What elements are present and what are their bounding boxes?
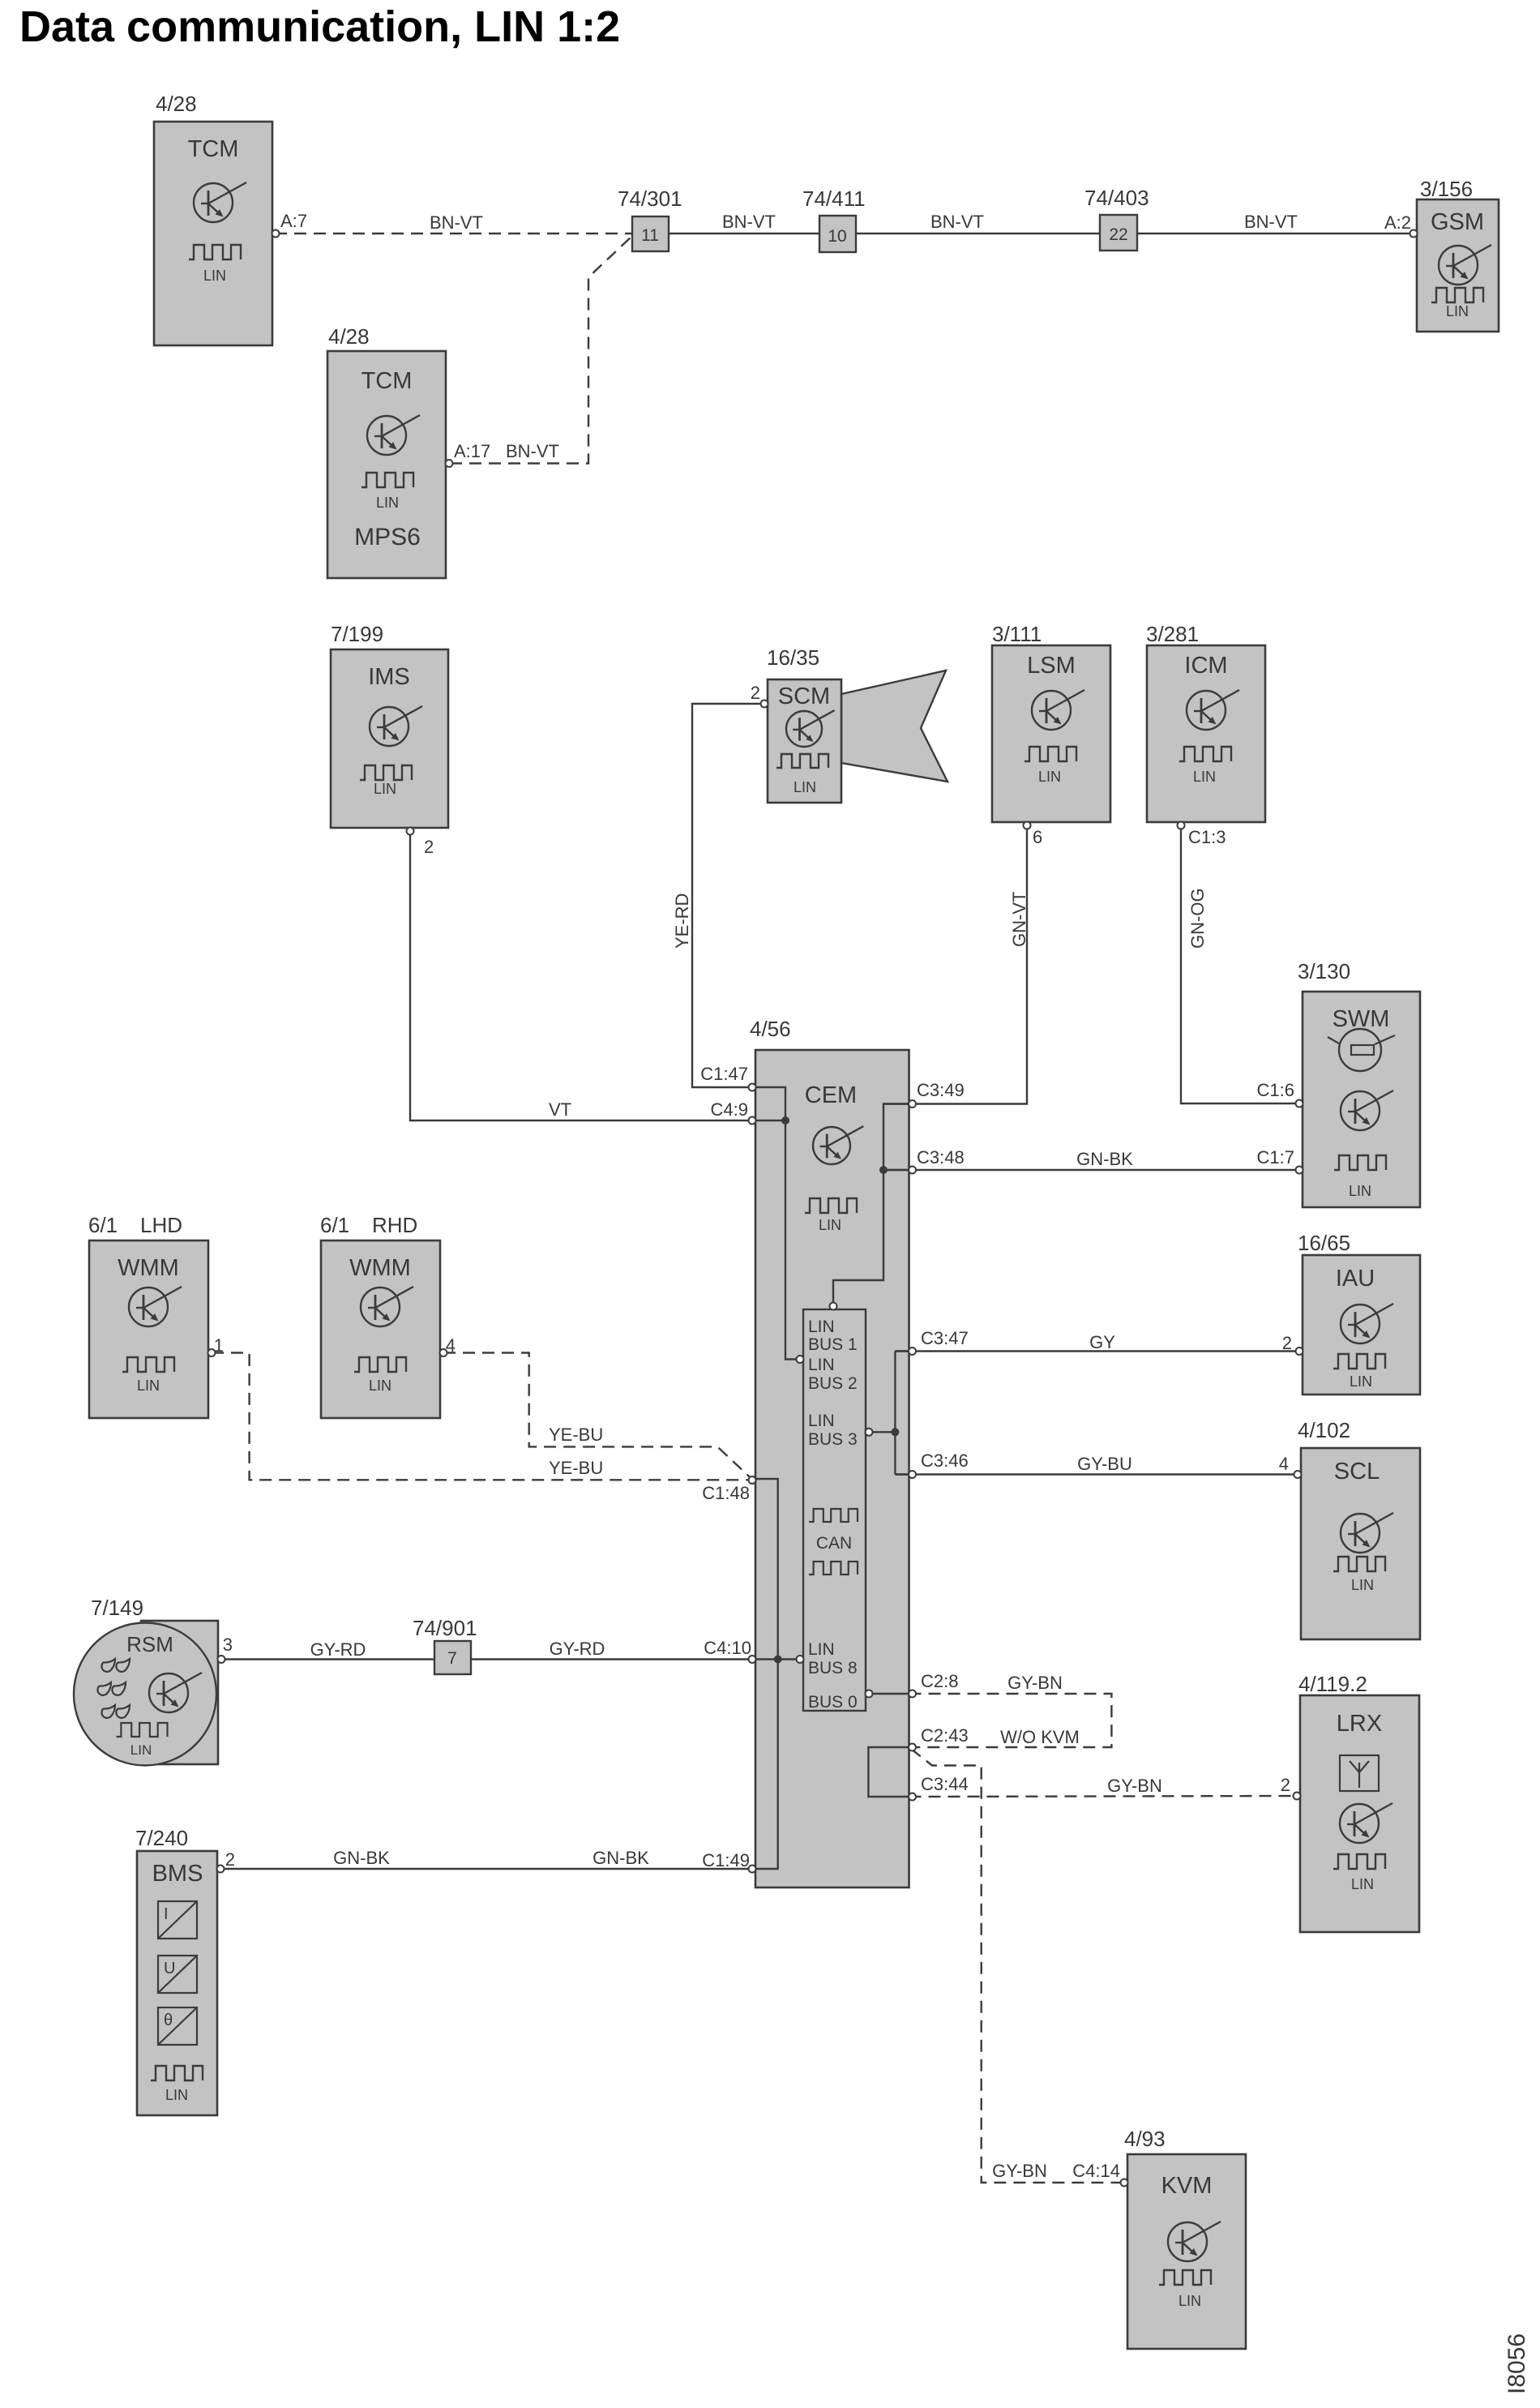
wire GN-BK BMS 2 to CEM C1:49 [220, 1868, 755, 1870]
connector 74/301 pin 11 [632, 216, 669, 251]
label W/O KVM [1000, 1727, 1080, 1747]
SCL contents [1333, 1459, 1393, 1593]
pin C1:47 on CEM [749, 1084, 756, 1091]
pin C3:46 on CEM [909, 1471, 916, 1478]
label VT [549, 1099, 571, 1120]
pin C3:47 on CEM [909, 1348, 916, 1355]
svg-text:C3:46: C3:46 [921, 1450, 969, 1471]
svg-text:1: 1 [214, 1335, 224, 1356]
ECU LSM 3/111 box [992, 645, 1110, 822]
svg-text:GN-BK: GN-BK [592, 1848, 649, 1868]
pin A:17 on TCM MPS6 [446, 460, 453, 467]
label GN-BK 3 [592, 1848, 649, 1868]
CEM internal loop C2:43 to C3:44 [868, 1747, 909, 1797]
ref 4/28 (TCM) [156, 92, 197, 116]
wire BN-VT dashed TCM A:17 branch [450, 236, 632, 464]
svg-text:LIN: LIN [130, 1742, 152, 1758]
pin LIN BUS 2 on inner block [797, 1356, 804, 1363]
svg-text:LIN: LIN [1350, 1373, 1372, 1390]
wire BN-VT 74/301 to 74/411 [669, 233, 819, 234]
ref 74/301 [618, 186, 682, 211]
svg-text:3/281: 3/281 [1146, 622, 1199, 646]
svg-text:BUS 3: BUS 3 [808, 1430, 858, 1449]
label C1:6 [1257, 1080, 1294, 1100]
wire GY-BN dashed CEM C2:8 W/O KVM loop to C2:43 [909, 1694, 1112, 1747]
svg-text:LSM: LSM [1027, 653, 1076, 679]
ref 74/411 [802, 186, 866, 211]
ECU CEM 4/56 box [755, 1050, 909, 1887]
WMM LHD contents [118, 1255, 182, 1394]
label C1:3 [1188, 827, 1226, 847]
svg-text:6/1: 6/1 [88, 1213, 118, 1237]
svg-text:TCM: TCM [361, 368, 413, 394]
wire BN-VT 74/403 to GSM A:2 [1137, 233, 1414, 234]
pin C2:43 on CEM [909, 1744, 916, 1751]
svg-text:2: 2 [424, 837, 434, 857]
svg-text:3/156: 3/156 [1420, 177, 1473, 201]
ref 74/403 [1084, 186, 1149, 210]
svg-text:16/35: 16/35 [767, 645, 819, 670]
label A:2 [1384, 212, 1411, 233]
svg-text:BUS 8: BUS 8 [808, 1659, 858, 1677]
ECU WMM LHD 6/1 box [89, 1240, 208, 1418]
label C1:48 [702, 1483, 750, 1503]
pin C1:7 on SWM [1296, 1167, 1303, 1174]
label C2:43 [921, 1725, 969, 1746]
WMM RHD contents [349, 1255, 413, 1394]
connector 74/901 pin 7 [434, 1641, 471, 1674]
label YE-BU upper [549, 1425, 603, 1445]
svg-text:2: 2 [1281, 1775, 1290, 1795]
pin 4 on SCL [1294, 1471, 1302, 1478]
wire YE-RD SCM 2 to CEM C1:47 [692, 704, 760, 1087]
label 1 WMM LHD [214, 1335, 224, 1356]
label GN-OG rotated [1187, 888, 1208, 949]
svg-text:C4:9: C4:9 [711, 1099, 748, 1120]
ref 7/199 [331, 622, 383, 646]
svg-text:BN-VT: BN-VT [430, 212, 483, 233]
IAU contents [1333, 1266, 1393, 1390]
svg-text:4/93: 4/93 [1124, 2127, 1166, 2151]
svg-text:4: 4 [446, 1335, 456, 1356]
pin 6 on LSM [1024, 822, 1031, 829]
pin C4:14 on KVM [1121, 2179, 1128, 2187]
label C4:9 [711, 1099, 748, 1120]
label BN-VT 2 [722, 212, 776, 232]
pin C1:6 on SWM [1296, 1100, 1303, 1108]
svg-text:LIN: LIN [808, 1356, 835, 1374]
label C3:44 [921, 1774, 969, 1794]
ref 7/240 [135, 1826, 188, 1850]
svg-text:BUS 2: BUS 2 [808, 1374, 858, 1393]
CEM inner LIN-bus block [803, 1309, 866, 1711]
svg-text:LIN: LIN [1351, 1876, 1374, 1892]
svg-text:C1:49: C1:49 [702, 1850, 750, 1870]
label C3:48 [917, 1147, 965, 1168]
svg-text:C1:47: C1:47 [700, 1064, 748, 1084]
svg-text:LIN: LIN [819, 1217, 841, 1233]
svg-text:GN-BK: GN-BK [333, 1848, 390, 1868]
label 2 IMS [424, 837, 434, 857]
svg-text:74/411: 74/411 [802, 186, 866, 211]
svg-text:C4:10: C4:10 [704, 1638, 751, 1658]
svg-text:A:17: A:17 [454, 441, 490, 461]
svg-text:YE-BU: YE-BU [549, 1425, 603, 1445]
svg-text:C1:48: C1:48 [702, 1483, 750, 1503]
svg-text:11: 11 [641, 226, 659, 245]
svg-text:16/65: 16/65 [1298, 1231, 1350, 1255]
svg-text:2: 2 [1282, 1333, 1292, 1353]
ref 16/65 [1298, 1231, 1350, 1255]
pin C3:49 on CEM [909, 1100, 916, 1108]
ECU SWM 3/130 box [1303, 992, 1420, 1207]
svg-text:LIN: LIN [1193, 769, 1216, 785]
pin C1:3 on ICM [1178, 822, 1185, 829]
pin C1:48 on CEM [749, 1476, 756, 1484]
svg-text:GY: GY [1089, 1332, 1115, 1352]
svg-text:BUS 0: BUS 0 [808, 1693, 858, 1712]
svg-text:LIN: LIN [808, 1318, 835, 1336]
wire GY CEM C3:47 to IAU 2 [895, 1350, 1298, 1352]
pin LIN BUS 8 on inner block [797, 1656, 804, 1663]
ECU IMS 7/199 box [331, 649, 448, 828]
label GY-BU [1077, 1454, 1132, 1474]
label C1:47 [700, 1064, 748, 1084]
label C3:49 [917, 1080, 965, 1100]
svg-text:VT: VT [549, 1099, 571, 1120]
wire BN-VT dashed TCM A:7 to 74/301 [275, 233, 632, 234]
svg-text:2: 2 [225, 1849, 235, 1870]
svg-text:RSM: RSM [126, 1632, 173, 1656]
label GY-RD 2 [550, 1639, 605, 1659]
label C1:7 [1257, 1147, 1294, 1168]
svg-text:KVM: KVM [1161, 2173, 1213, 2199]
pin C2:8 on CEM [909, 1690, 916, 1698]
ref 4/56 [750, 1017, 791, 1041]
wire GN-BK CEM C3:48 to SWM C1:7 [883, 1169, 1300, 1171]
svg-text:BN-VT: BN-VT [1244, 212, 1298, 232]
CEM inner block labels LIN BUS 1/2/3 CAN LIN BUS 8 BUS 0 [808, 1318, 858, 1712]
svg-text:WMM: WMM [118, 1255, 179, 1281]
svg-text:GSM: GSM [1431, 209, 1484, 235]
svg-text:BMS: BMS [152, 1861, 203, 1887]
connector 74/411 pin 10 [819, 216, 856, 252]
label BN-VT 5 [506, 441, 559, 461]
svg-text:GY-BN: GY-BN [1107, 1776, 1162, 1796]
label C4:10 [704, 1638, 751, 1658]
ref 3/111 [992, 622, 1042, 646]
svg-text:LIN: LIN [203, 268, 226, 284]
svg-text:4: 4 [1279, 1454, 1289, 1474]
svg-text:LIN: LIN [376, 495, 399, 511]
pin 2 on BMS [217, 1866, 225, 1873]
label GY-BN 3 [992, 2161, 1047, 2181]
svg-text:74/301: 74/301 [618, 186, 682, 211]
label YE-RD rotated [672, 893, 692, 949]
ECU RSM 7/149 body [74, 1621, 218, 1766]
wire VT IMS 2 to CEM C4:9 [410, 833, 755, 1120]
wire GY-RD RSM 3 to 74/901 to CEM C4:10 [219, 1658, 755, 1660]
svg-text:LIN: LIN [1038, 769, 1061, 785]
label GN-BK 2 [333, 1848, 390, 1868]
label A:7 [280, 211, 307, 231]
svg-text:LIN: LIN [808, 1640, 835, 1659]
BMS contents [151, 1861, 203, 2103]
pin C3:48 on CEM [909, 1167, 916, 1174]
ref 7/149 [91, 1596, 143, 1620]
svg-text:LIN: LIN [1179, 2293, 1201, 2309]
svg-text:C3:48: C3:48 [917, 1147, 965, 1168]
svg-text:U: U [164, 1960, 175, 1977]
ref 6/1 LHD [88, 1213, 182, 1237]
CEM internal wire C1:47/C4:9 to LIN BUS 2 [755, 1087, 797, 1360]
svg-text:IMS: IMS [368, 664, 410, 690]
svg-text:YE-BU: YE-BU [549, 1458, 603, 1478]
label 6 LSM [1033, 827, 1042, 847]
svg-text:6: 6 [1033, 827, 1042, 847]
ECU LRX 4/119.2 box [1300, 1695, 1419, 1932]
label 4 WMM RHD [446, 1335, 456, 1356]
svg-text:LHD: LHD [140, 1213, 182, 1237]
CEM internal wire LIN BUS 3 to C3:47/C3:46 [869, 1352, 909, 1475]
svg-text:BN-VT: BN-VT [506, 441, 559, 461]
ref 4/119.2 [1298, 1672, 1367, 1696]
svg-text:ICM: ICM [1184, 653, 1227, 679]
svg-text:LRX: LRX [1337, 1711, 1382, 1737]
pin A:7 on TCM [272, 230, 280, 238]
wire GY-BN dashed CEM C2:43 to KVM C4:14 [911, 1749, 1121, 2183]
svg-text:LIN: LIN [794, 779, 816, 795]
svg-text:BN-VT: BN-VT [722, 212, 776, 232]
svg-text:SCM: SCM [778, 683, 830, 709]
wire GY-BU CEM C3:46 to SCL 4 [895, 1473, 1298, 1475]
label 3 RSM [223, 1635, 233, 1655]
TCM MPS6 contents [354, 368, 421, 551]
ECU SCL 4/102 box [1301, 1448, 1420, 1639]
wire BN-VT 74/411 to 74/403 [856, 233, 1100, 234]
pin 2 on IAU [1296, 1348, 1303, 1355]
label C3:47 [921, 1328, 969, 1348]
label 2 IAU [1282, 1333, 1292, 1353]
svg-text:7: 7 [447, 1649, 457, 1668]
label GY-RD 1 [310, 1639, 366, 1660]
ref 3/156 [1420, 177, 1473, 201]
ref 6/1 RHD [320, 1213, 417, 1237]
ECU SCM 16/35 horn [841, 671, 948, 782]
svg-text:7/240: 7/240 [135, 1826, 188, 1850]
svg-text:CAN: CAN [816, 1534, 852, 1553]
svg-text:10: 10 [828, 227, 846, 246]
ref 3/130 [1298, 959, 1350, 983]
label YE-BU lower [549, 1458, 603, 1478]
svg-text:A:2: A:2 [1384, 212, 1411, 233]
GSM contents [1431, 209, 1491, 319]
KVM contents [1159, 2173, 1221, 2309]
svg-text:WMM: WMM [349, 1255, 411, 1281]
svg-text:GY-RD: GY-RD [550, 1639, 605, 1659]
label BN-VT 3 [930, 212, 984, 232]
svg-text:I: I [164, 1905, 169, 1923]
svg-text:7/199: 7/199 [331, 622, 383, 646]
pin C3:44 on CEM [909, 1793, 916, 1801]
label 2 LRX [1281, 1775, 1290, 1795]
pin 3 on RSM [218, 1656, 225, 1663]
label GY-BN 1 [1007, 1673, 1063, 1693]
label C4:14 [1072, 2161, 1120, 2181]
label 2 BMS [225, 1849, 235, 1870]
ref 4/93 [1124, 2127, 1166, 2151]
ECU WMM RHD 6/1 box [321, 1240, 440, 1418]
svg-text:I8056: I8056 [1504, 2333, 1530, 2394]
svg-text:4/28: 4/28 [156, 92, 197, 116]
ECU BMS 7/240 box [137, 1851, 217, 2115]
pin 4 on WMM RHD [440, 1349, 447, 1356]
svg-text:LIN: LIN [369, 1378, 391, 1394]
junction LIN BUS 3 [891, 1428, 899, 1436]
svg-text:2: 2 [751, 683, 760, 703]
svg-text:C4:14: C4:14 [1072, 2161, 1120, 2181]
svg-text:GY-BN: GY-BN [1007, 1673, 1063, 1693]
label GY-BN 2 [1107, 1776, 1162, 1796]
svg-text:22: 22 [1109, 225, 1127, 244]
svg-text:6/1: 6/1 [320, 1213, 349, 1237]
svg-text:MPS6: MPS6 [354, 524, 421, 551]
ECU SCM 16/35 box [768, 679, 841, 803]
IMS contents [360, 664, 422, 797]
LRX contents [1333, 1711, 1392, 1892]
ECU TCM MPS6 4/28 box [327, 351, 446, 578]
svg-text:7/149: 7/149 [91, 1596, 143, 1620]
pin C4:9 on CEM [749, 1117, 756, 1125]
svg-text:CEM: CEM [805, 1082, 857, 1108]
RSM contents [97, 1632, 202, 1758]
svg-text:θ: θ [164, 2012, 173, 2029]
pin 2 on IMS [407, 828, 414, 835]
label BN-VT 1 [430, 212, 483, 233]
label I8056 rotated [1504, 2333, 1530, 2394]
svg-text:GY-RD: GY-RD [310, 1639, 366, 1660]
svg-text:LIN: LIN [1349, 1183, 1371, 1199]
SWM contents [1328, 1006, 1395, 1199]
pin LIN BUS 1 top of inner block [830, 1303, 837, 1310]
label GY [1089, 1332, 1115, 1352]
wire GN-VT LSM 6 to CEM C3:49 [883, 829, 1027, 1104]
ref 74/901 [413, 1616, 477, 1640]
svg-text:LIN: LIN [1351, 1577, 1374, 1593]
svg-text:Data communication, LIN 1:2: Data communication, LIN 1:2 [19, 2, 620, 51]
svg-text:C3:47: C3:47 [921, 1328, 969, 1348]
svg-text:C2:8: C2:8 [921, 1671, 958, 1691]
junction C4:9/C1:47 [781, 1116, 789, 1125]
pin A:2 on GSM [1410, 230, 1418, 238]
svg-text:C3:49: C3:49 [917, 1080, 965, 1100]
LSM contents [1025, 653, 1084, 785]
svg-text:3: 3 [223, 1635, 233, 1655]
svg-text:BN-VT: BN-VT [930, 212, 984, 232]
CEM internal wire C1:48/C4:10/C1:49 to LIN BUS 8 [755, 1479, 797, 1869]
svg-text:YE-RD: YE-RD [672, 893, 692, 949]
svg-text:4/56: 4/56 [750, 1017, 791, 1041]
wire YE-BU dashed WMM RHD 4 to CEM C1:48 [443, 1353, 753, 1480]
svg-text:GY-BN: GY-BN [992, 2161, 1047, 2181]
svg-text:C1:6: C1:6 [1257, 1080, 1294, 1100]
svg-text:C1:7: C1:7 [1257, 1147, 1294, 1168]
ref 4/102 [1298, 1418, 1350, 1442]
svg-text:4/28: 4/28 [328, 324, 370, 349]
svg-text:GY-BU: GY-BU [1077, 1454, 1132, 1474]
label C2:8 [921, 1671, 958, 1691]
svg-text:C2:43: C2:43 [921, 1725, 969, 1746]
svg-text:74/403: 74/403 [1084, 186, 1149, 210]
pin C4:10 on CEM [749, 1656, 756, 1663]
CEM internal wire C3:49/C3:48 to LIN BUS 1 [833, 1104, 909, 1304]
CEM contents [805, 1082, 864, 1233]
CEM internal wire C4:9 stub [755, 1120, 785, 1121]
junction C3:48 [879, 1166, 888, 1174]
ECU GSM 3/156 box [1417, 199, 1499, 332]
pin LIN BUS 3 on inner block [866, 1429, 873, 1436]
svg-text:GN-OG: GN-OG [1187, 888, 1208, 949]
connector 74/403 pin 22 [1100, 215, 1137, 251]
svg-text:74/901: 74/901 [413, 1616, 477, 1640]
svg-text:TCM: TCM [188, 136, 239, 162]
svg-text:GN-VT: GN-VT [1009, 892, 1029, 947]
svg-text:LIN: LIN [137, 1378, 160, 1394]
pin 1 on WMM LHD [208, 1349, 216, 1356]
pin C1:49 on CEM [749, 1866, 756, 1873]
pin BUS 0 on inner block [866, 1690, 873, 1698]
title [19, 2, 620, 51]
ICM contents [1179, 653, 1239, 785]
label BN-VT 4 [1244, 212, 1298, 232]
ref 3/281 [1146, 622, 1199, 646]
svg-text:GN-BK: GN-BK [1076, 1149, 1133, 1169]
svg-text:4/119.2: 4/119.2 [1298, 1672, 1367, 1696]
ECU TCM 4/28 box (upper) [154, 122, 272, 345]
label C3:46 [921, 1450, 969, 1471]
svg-text:SCL: SCL [1334, 1459, 1380, 1485]
label A:17 [454, 441, 490, 461]
junction LIN BUS 8 [774, 1656, 782, 1664]
label 2 SCM [751, 683, 760, 703]
label C1:49 [702, 1850, 750, 1870]
pin 2 on SCM [761, 701, 768, 708]
svg-text:C1:3: C1:3 [1188, 827, 1226, 847]
SCM contents [776, 683, 835, 795]
ECU ICM 3/281 box [1147, 645, 1265, 822]
svg-text:LIN: LIN [1446, 303, 1469, 319]
svg-text:RHD: RHD [372, 1213, 417, 1237]
label 4 SCL [1279, 1454, 1289, 1474]
wire YE-BU dashed WMM LHD 1 to CEM C1:48 [212, 1353, 753, 1480]
svg-text:W/O KVM: W/O KVM [1000, 1727, 1080, 1747]
wire GN-OG ICM C1:3 to SWM C1:6 [1181, 829, 1300, 1103]
svg-text:LIN: LIN [374, 781, 396, 797]
svg-text:3/130: 3/130 [1298, 959, 1350, 983]
ref 4/28 (TCM MPS6) [328, 324, 370, 349]
svg-text:4/102: 4/102 [1298, 1418, 1350, 1442]
ref 16/35 [767, 645, 819, 670]
label GN-BK 1 [1076, 1149, 1133, 1169]
svg-text:IAU: IAU [1336, 1266, 1375, 1292]
label GN-VT rotated [1009, 892, 1029, 947]
pin 2 on LRX [1294, 1793, 1301, 1800]
svg-text:A:7: A:7 [280, 211, 307, 231]
svg-text:BUS 1: BUS 1 [808, 1335, 858, 1354]
wire GY-BN dashed CEM C3:44 to LRX 2 [909, 1796, 1299, 1797]
svg-text:3/111: 3/111 [992, 622, 1042, 646]
svg-text:C3:44: C3:44 [921, 1774, 969, 1794]
